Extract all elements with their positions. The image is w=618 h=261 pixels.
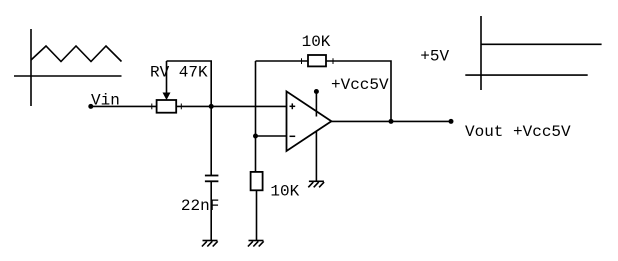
op-amp ground pin wire	[315, 132, 317, 182]
svg-text:22nF: 22nF	[181, 197, 219, 215]
pin tick R1 right	[332, 58, 334, 64]
output graph horizontal axis	[465, 74, 587, 76]
wire RV wiper to right terminal (top)	[167, 61, 212, 106]
ground (below capacitor)	[202, 241, 218, 247]
junction node output	[389, 119, 394, 124]
node Vout terminal	[449, 119, 454, 124]
junction node B (inverting input)	[253, 134, 258, 139]
resistor R2 10K (to ground)	[251, 172, 263, 190]
ground (below R2)	[248, 241, 264, 247]
op-amp power pin node	[314, 89, 319, 94]
wire capacitor to ground	[210, 181, 212, 240]
svg-text:Vout +Vcc5V: Vout +Vcc5V	[465, 123, 571, 141]
svg-text:+Vcc5V: +Vcc5V	[331, 76, 389, 94]
svg-text:+5V: +5V	[420, 47, 449, 65]
wire junction down to capacitor	[210, 106, 212, 175]
output graph vertical axis	[480, 16, 482, 90]
pin tick RV left	[151, 104, 153, 110]
potentiometer RV wiper arrow	[166, 61, 168, 95]
op-amp minus input marking	[290, 135, 296, 137]
wire to op-amp inverting input	[256, 135, 287, 137]
op-amp U1 body	[287, 91, 332, 151]
svg-text:RV 47K: RV 47K	[150, 63, 208, 81]
pin tick R1 left	[301, 58, 303, 64]
wire R1 to output column	[326, 61, 391, 121]
wire output to terminal	[391, 120, 451, 122]
node Vin	[88, 104, 93, 109]
resistor R1 10K (feedback)	[308, 55, 326, 66]
wire inverting column vertical	[255, 61, 257, 172]
input graph horizontal axis	[14, 75, 122, 77]
wire junction to op-amp non-inverting input	[211, 105, 286, 107]
input graph vertical axis	[30, 29, 32, 106]
ground (op-amp)	[308, 181, 324, 187]
op-amp plus input marking	[290, 103, 296, 109]
capacitor C1 22nF plates	[205, 175, 219, 177]
op-amp power pin wire	[315, 92, 317, 117]
pin tick RV right	[180, 104, 182, 110]
svg-text:10K: 10K	[270, 182, 299, 200]
svg-text:10K: 10K	[302, 33, 331, 51]
triangle waveform	[31, 46, 122, 62]
feedback net: wire from inverting column along top	[256, 60, 309, 62]
output graph high level line	[481, 43, 602, 45]
wire RV right pin to junction	[176, 105, 211, 107]
potentiometer RV body	[157, 100, 177, 113]
junction node A	[209, 104, 214, 109]
wire op-amp output	[331, 120, 391, 122]
wire R2 to ground	[256, 190, 258, 240]
wire Vin to RV left pin	[91, 105, 157, 107]
